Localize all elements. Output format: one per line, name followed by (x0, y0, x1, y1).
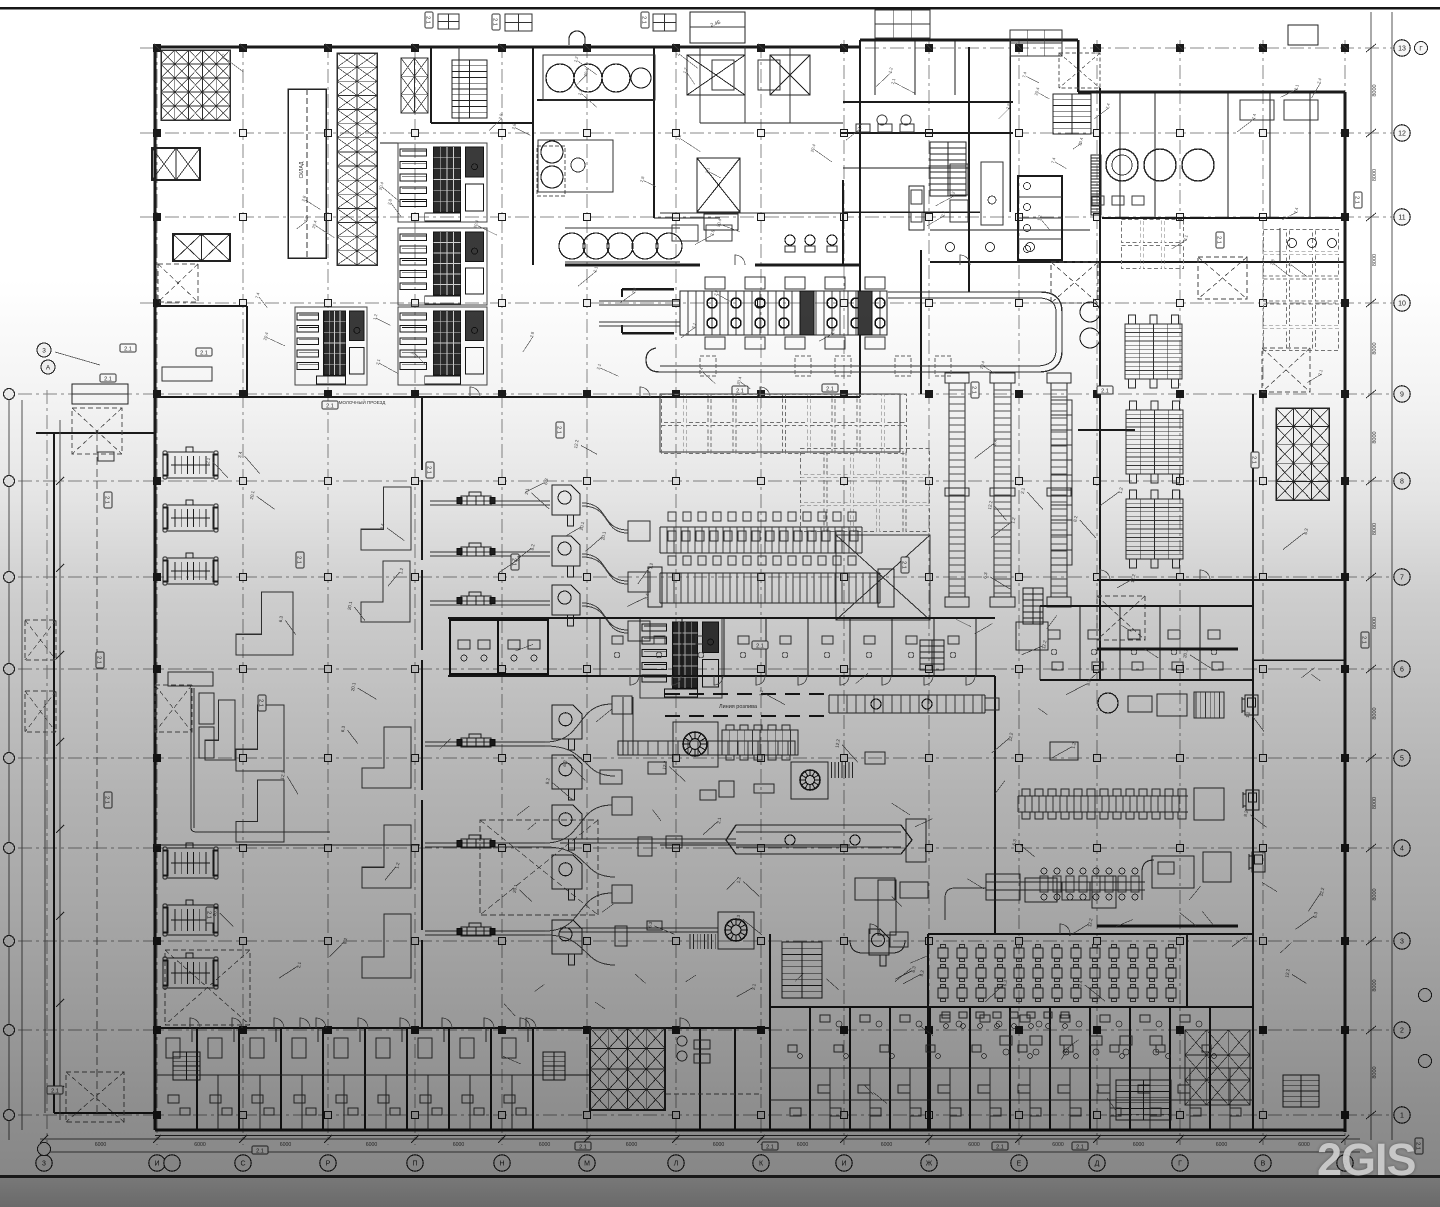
svg-text:2.1: 2.1 (326, 403, 334, 409)
svg-text:8000: 8000 (1372, 342, 1378, 354)
svg-text:1.2: 1.2 (950, 190, 957, 198)
svg-text:5: 5 (1400, 756, 1404, 763)
svg-text:10: 10 (1398, 301, 1406, 308)
svg-text:8.2: 8.2 (919, 969, 925, 977)
svg-text:7.4: 7.4 (1251, 113, 1258, 121)
svg-text:8.2: 8.2 (545, 777, 551, 785)
svg-text:20.4: 20.4 (378, 181, 385, 191)
svg-text:3: 3 (42, 1161, 46, 1168)
svg-text:9: 9 (1400, 392, 1404, 399)
svg-text:2.8: 2.8 (713, 289, 720, 297)
svg-text:2.1: 2.1 (901, 561, 907, 569)
svg-text:7: 7 (1400, 575, 1404, 582)
svg-text:6.3: 6.3 (647, 921, 653, 929)
svg-text:6000: 6000 (453, 1142, 465, 1148)
svg-text:12.2: 12.2 (1319, 887, 1326, 897)
svg-text:2.1: 2.1 (1020, 487, 1026, 495)
svg-text:В: В (1261, 1161, 1266, 1168)
svg-text:7.4: 7.4 (1316, 77, 1323, 85)
svg-text:8000: 8000 (1372, 431, 1378, 443)
svg-text:20.1: 20.1 (579, 521, 586, 531)
svg-text:12.2: 12.2 (573, 439, 580, 449)
svg-text:8000: 8000 (1372, 707, 1378, 719)
svg-text:1.2: 1.2 (887, 66, 894, 74)
svg-text:2.1: 2.1 (736, 388, 744, 394)
svg-text:2.1: 2.1 (704, 166, 711, 174)
svg-text:7.4: 7.4 (1105, 102, 1112, 110)
svg-text:12.2: 12.2 (987, 500, 994, 510)
svg-text:2.1: 2.1 (200, 350, 208, 356)
svg-text:2.1: 2.1 (296, 961, 302, 969)
svg-text:2.1: 2.1 (996, 1144, 1004, 1150)
svg-text:М: М (584, 1161, 590, 1168)
svg-text:12.2: 12.2 (1041, 639, 1048, 649)
svg-text:20.4: 20.4 (311, 219, 318, 229)
svg-text:2.8: 2.8 (639, 175, 646, 183)
svg-text:6.3: 6.3 (543, 477, 549, 485)
svg-text:2.1: 2.1 (556, 426, 562, 434)
svg-text:1.2: 1.2 (758, 689, 764, 697)
svg-text:2.1: 2.1 (751, 983, 757, 991)
svg-text:1.2: 1.2 (1071, 741, 1077, 749)
svg-text:8000: 8000 (1372, 617, 1378, 629)
svg-text:Линия розлива: Линия розлива (719, 704, 758, 710)
svg-text:С: С (240, 1161, 245, 1168)
svg-text:2.1: 2.1 (375, 358, 382, 366)
svg-text:6000: 6000 (280, 1142, 292, 1148)
svg-text:Д: Д (1095, 1161, 1100, 1168)
svg-text:2.1: 2.1 (256, 1148, 264, 1154)
svg-text:20.4: 20.4 (583, 67, 590, 77)
svg-text:2.1: 2.1 (596, 363, 603, 371)
svg-text:Е: Е (1017, 1161, 1022, 1168)
svg-text:8000: 8000 (1372, 797, 1378, 809)
svg-text:2.1: 2.1 (1076, 1144, 1084, 1150)
svg-text:2.8: 2.8 (498, 112, 505, 120)
svg-text:2.1: 2.1 (1216, 236, 1222, 244)
svg-text:3.4: 3.4 (1077, 980, 1083, 988)
svg-text:Л: Л (674, 1161, 679, 1168)
svg-text:П: П (412, 1161, 417, 1168)
svg-text:8000: 8000 (1372, 254, 1378, 266)
svg-text:20.1: 20.1 (512, 883, 519, 893)
svg-text:2.1: 2.1 (579, 1144, 587, 1150)
svg-text:6: 6 (1400, 667, 1404, 674)
svg-text:6000: 6000 (968, 1142, 980, 1148)
svg-text:2.1: 2.1 (425, 16, 431, 24)
svg-text:2.1: 2.1 (296, 556, 302, 564)
svg-text:7.4: 7.4 (940, 210, 947, 218)
svg-text:1.2: 1.2 (1245, 711, 1251, 719)
svg-text:МОЛОЧНЫЙ ПРОЕЗД: МОЛОЧНЫЙ ПРОЕЗД (339, 398, 386, 405)
svg-text:2.1: 2.1 (426, 466, 432, 474)
svg-text:2.1: 2.1 (1293, 83, 1300, 91)
svg-text:3.4: 3.4 (992, 439, 998, 447)
svg-text:6000: 6000 (1052, 1142, 1064, 1148)
svg-text:20.4: 20.4 (262, 331, 269, 341)
svg-text:3.4: 3.4 (379, 523, 385, 531)
svg-text:6000: 6000 (797, 1142, 809, 1148)
svg-text:2.8: 2.8 (631, 286, 638, 294)
svg-text:2.1: 2.1 (96, 656, 102, 664)
svg-text:6.3: 6.3 (982, 572, 988, 580)
svg-text:2.1: 2.1 (258, 699, 264, 707)
svg-text:Ж: Ж (926, 1161, 933, 1168)
svg-text:8.2: 8.2 (342, 937, 348, 945)
svg-text:Н: Н (499, 1161, 504, 1168)
svg-text:20.1: 20.1 (249, 490, 256, 500)
svg-text:12.2: 12.2 (662, 760, 669, 770)
svg-text:8.2: 8.2 (1243, 810, 1249, 818)
svg-text:2.1: 2.1 (492, 18, 498, 26)
svg-text:12.2: 12.2 (834, 738, 841, 748)
svg-text:3: 3 (42, 347, 46, 354)
svg-text:20.4: 20.4 (979, 360, 986, 370)
svg-text:1.2: 1.2 (1118, 486, 1124, 494)
svg-text:1.2: 1.2 (1010, 516, 1016, 524)
svg-text:2.1: 2.1 (1361, 636, 1367, 644)
svg-text:12.2: 12.2 (1130, 573, 1137, 583)
svg-text:6000: 6000 (1216, 1142, 1228, 1148)
svg-text:6000: 6000 (626, 1142, 638, 1148)
svg-text:8000: 8000 (1372, 523, 1378, 535)
svg-text:3.4: 3.4 (237, 451, 243, 459)
svg-text:2.8: 2.8 (303, 215, 310, 223)
svg-text:11: 11 (1398, 215, 1405, 222)
svg-text:2.1: 2.1 (766, 1144, 774, 1150)
svg-text:2.1: 2.1 (51, 1088, 59, 1094)
svg-text:6000: 6000 (366, 1142, 378, 1148)
svg-text:6000: 6000 (1133, 1142, 1145, 1148)
svg-text:20.1: 20.1 (350, 682, 357, 692)
svg-text:2.1: 2.1 (104, 496, 110, 504)
svg-text:2.1: 2.1 (1251, 456, 1257, 464)
svg-text:2.1: 2.1 (641, 16, 647, 24)
svg-text:8.2: 8.2 (1072, 515, 1078, 523)
svg-text:6000: 6000 (713, 1142, 725, 1148)
svg-text:7.4: 7.4 (830, 328, 837, 336)
svg-text:6.3: 6.3 (1312, 911, 1318, 919)
svg-text:6.3: 6.3 (1002, 979, 1008, 987)
svg-text:4: 4 (1400, 846, 1404, 853)
svg-text:6.3: 6.3 (1303, 527, 1309, 535)
svg-text:12.2: 12.2 (280, 770, 287, 780)
svg-text:7.4: 7.4 (1050, 156, 1057, 164)
svg-text:20.1: 20.1 (600, 531, 607, 541)
svg-text:8000: 8000 (1372, 84, 1378, 96)
svg-text:1.2: 1.2 (398, 567, 404, 575)
svg-text:1.2: 1.2 (372, 313, 379, 321)
svg-text:6000: 6000 (881, 1142, 893, 1148)
svg-text:Г: Г (1178, 1161, 1182, 1168)
svg-text:7.4: 7.4 (1021, 71, 1028, 79)
svg-text:2.1: 2.1 (890, 77, 897, 85)
svg-text:8000: 8000 (1372, 979, 1378, 991)
svg-text:2.1: 2.1 (826, 386, 834, 392)
svg-text:Р: Р (326, 1161, 331, 1168)
svg-text:2.1: 2.1 (206, 911, 212, 919)
svg-text:8000: 8000 (1372, 1066, 1378, 1078)
svg-text:2.1: 2.1 (104, 796, 110, 804)
svg-text:20.4: 20.4 (715, 218, 722, 228)
svg-text:6000: 6000 (539, 1142, 551, 1148)
svg-text:6.3: 6.3 (278, 615, 284, 623)
svg-text:20.4: 20.4 (1033, 86, 1040, 96)
svg-text:8000: 8000 (1372, 169, 1378, 181)
svg-text:3.4: 3.4 (644, 592, 650, 600)
svg-text:2.1: 2.1 (124, 346, 132, 352)
svg-text:6000: 6000 (1298, 1142, 1310, 1148)
svg-text:1.2: 1.2 (648, 562, 654, 570)
svg-text:12.2: 12.2 (1087, 917, 1094, 927)
svg-text:6.3: 6.3 (562, 760, 568, 768)
svg-text:8.2: 8.2 (530, 543, 536, 551)
svg-text:2.1: 2.1 (756, 643, 764, 649)
svg-text:2.1: 2.1 (716, 816, 722, 824)
svg-text:СКЛАД: СКЛАД (299, 161, 305, 178)
svg-text:6000: 6000 (194, 1142, 206, 1148)
svg-text:20.4: 20.4 (472, 219, 479, 229)
svg-text:12.2: 12.2 (1008, 732, 1015, 742)
svg-text:20.1: 20.1 (212, 907, 219, 917)
svg-text:1: 1 (1400, 1113, 1404, 1120)
svg-text:6000: 6000 (95, 1142, 107, 1148)
svg-text:2.1: 2.1 (104, 376, 112, 382)
svg-text:3: 3 (1400, 939, 1404, 946)
svg-text:20.4: 20.4 (1077, 136, 1084, 146)
svg-text:20.4: 20.4 (809, 143, 816, 153)
svg-text:8: 8 (1400, 479, 1404, 486)
svg-text:20.4: 20.4 (736, 375, 743, 385)
svg-text:1.2: 1.2 (394, 862, 400, 870)
svg-text:2.1: 2.1 (205, 457, 211, 465)
svg-text:2.1: 2.1 (971, 386, 977, 394)
svg-text:2.1: 2.1 (1354, 196, 1360, 204)
svg-text:8000: 8000 (1372, 888, 1378, 900)
svg-text:2.1: 2.1 (1183, 234, 1190, 242)
svg-text:7.4: 7.4 (1293, 206, 1300, 214)
svg-text:12: 12 (1398, 131, 1406, 138)
svg-text:2.1: 2.1 (1317, 368, 1324, 376)
svg-text:2.8: 2.8 (529, 331, 536, 339)
svg-text:2: 2 (1400, 1028, 1404, 1035)
svg-text:20.1: 20.1 (1182, 648, 1189, 658)
svg-text:А: А (46, 364, 51, 371)
svg-text:6.3: 6.3 (911, 965, 917, 973)
svg-text:12.2: 12.2 (1284, 968, 1291, 978)
svg-text:1.2: 1.2 (736, 876, 742, 884)
svg-text:И: И (154, 1161, 159, 1168)
svg-text:20.1: 20.1 (347, 600, 354, 610)
svg-text:2.1: 2.1 (1101, 388, 1109, 394)
svg-text:2.8: 2.8 (301, 194, 308, 202)
svg-text:6.3: 6.3 (340, 725, 346, 733)
svg-text:И: И (841, 1161, 846, 1168)
svg-text:13: 13 (1398, 46, 1406, 53)
